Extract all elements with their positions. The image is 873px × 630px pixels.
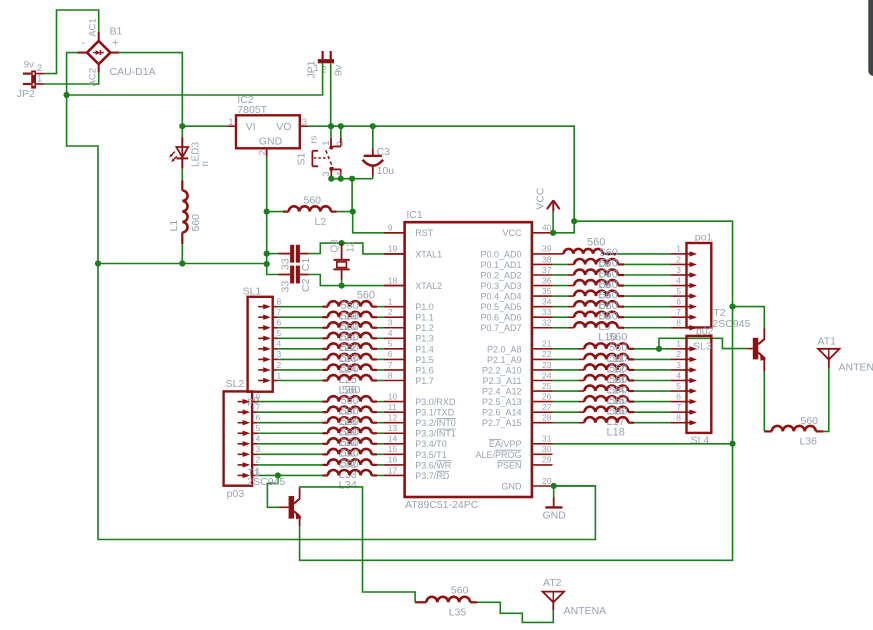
svg-text:ALE/PROG: ALE/PROG — [475, 450, 521, 460]
wire inductor to SL3 pin 3 — [634, 369, 687, 371]
svg-text:1: 1 — [314, 63, 319, 74]
wire ground rail to GND symbol — [98, 264, 595, 540]
svg-text:7: 7 — [676, 402, 681, 412]
SL3 pin 6 — [676, 391, 697, 404]
wire to ground rail row — [266, 254, 268, 264]
svg-text:2: 2 — [256, 455, 261, 465]
svg-text:7: 7 — [388, 360, 393, 370]
inductor L32 560 — [328, 437, 377, 470]
svg-text:p03: p03 — [227, 488, 245, 500]
wire to IC1 — [377, 474, 384, 476]
capacitor C1 33 — [267, 243, 342, 271]
svg-text:GND: GND — [502, 481, 523, 491]
wire to IC1 — [377, 432, 384, 434]
junction IC1 pin40 — [550, 230, 556, 236]
svg-text:33: 33 — [279, 281, 291, 293]
svg-text:24: 24 — [542, 370, 552, 380]
svg-text:33: 33 — [542, 307, 552, 317]
wire SL1.5 to P1.3 — [278, 337, 328, 339]
crystal Q3 — [330, 239, 357, 286]
svg-text:4: 4 — [676, 275, 681, 285]
wire LED3 to L1 — [181, 169, 183, 181]
svg-text:17: 17 — [388, 465, 398, 475]
IC1 pin 27 P2.6_A14 — [482, 402, 553, 418]
inductor L26 560 — [328, 363, 377, 396]
svg-text:P1.1: P1.1 — [415, 313, 434, 323]
wire IC1 P0.7 to inductor — [553, 327, 575, 329]
svg-text:4: 4 — [676, 370, 681, 380]
svg-text:5: 5 — [676, 286, 681, 296]
svg-text:560: 560 — [341, 363, 359, 375]
SL3 pin 5 — [676, 381, 697, 394]
antenna AT2 ANTENA — [543, 577, 607, 617]
svg-text:21: 21 — [542, 339, 552, 349]
svg-text:P0.1_AD1: P0.1_AD1 — [480, 260, 521, 270]
inductor L17 560 — [584, 395, 634, 428]
po1 pin 3 — [676, 265, 697, 278]
junction C1 left — [264, 251, 270, 257]
SL1 pin 4 — [258, 339, 281, 352]
inductor L3 560 — [564, 237, 617, 270]
svg-text:VO: VO — [276, 121, 291, 133]
svg-text:P0.6_AD6: P0.6_AD6 — [480, 313, 521, 323]
inductor L21 560 — [328, 310, 377, 343]
svg-text:5: 5 — [676, 381, 681, 391]
wire L2-left down to C1 row — [266, 212, 268, 254]
junction Q3 top — [339, 240, 345, 246]
wire to IC1 — [377, 443, 384, 445]
junction L1/ground rail — [179, 260, 185, 266]
LED LED3 — [169, 126, 211, 169]
svg-text:P1.4: P1.4 — [415, 344, 434, 354]
IC1 pin 17 P3.7/RD — [384, 465, 450, 481]
svg-text:C1: C1 — [300, 258, 312, 272]
svg-text:L1: L1 — [168, 220, 180, 232]
wire IC1 P2.1 to inductor — [553, 358, 585, 360]
svg-text:1: 1 — [277, 370, 282, 380]
wire VCC rail from IC2 VO — [308, 126, 574, 221]
svg-text:31: 31 — [542, 434, 552, 444]
wire IC1 P0.3 to inductor — [553, 285, 575, 287]
svg-text:1: 1 — [676, 339, 681, 349]
svg-text:L36: L36 — [800, 436, 818, 448]
svg-text:6: 6 — [676, 391, 681, 401]
IC1 pin 9 RST — [384, 223, 434, 239]
connector JP2 — [17, 59, 43, 100]
inductor L27 560 — [328, 384, 377, 417]
wire JP2.2 to B1 AC1 — [36, 10, 99, 74]
inductor L18 560 — [584, 405, 634, 438]
svg-text:rs: rs — [309, 135, 320, 143]
wire EA/VPP pin31 to SL4 net — [553, 443, 733, 445]
svg-text:P3.4/T0: P3.4/T0 — [415, 439, 447, 449]
wire S1 bottom rail — [331, 178, 373, 180]
inductor L34 560 — [328, 458, 377, 491]
IC1 pin 36 P0.3_AD3 — [480, 275, 552, 291]
wire SL2 row 4 to P3.3 — [258, 432, 328, 434]
svg-text:2: 2 — [676, 349, 681, 359]
po1 pin 6 — [676, 296, 697, 309]
inductor L20 560 — [328, 300, 377, 333]
inductor L22 560 — [328, 321, 377, 354]
wire to T1 base — [267, 475, 288, 507]
svg-text:P3.2/INT0: P3.2/INT0 — [415, 418, 456, 428]
svg-text:23: 23 — [542, 360, 552, 370]
wire IC1 P2.7 to inductor — [553, 422, 585, 424]
wire T2 collector to VCC vertical — [733, 307, 765, 329]
svg-text:19: 19 — [388, 244, 398, 254]
SL1 pin 6 — [258, 318, 281, 331]
svg-text:7805T: 7805T — [237, 104, 267, 116]
inductor L15 560 — [584, 374, 634, 407]
svg-text:13: 13 — [388, 423, 398, 433]
svg-text:P0.5_AD5: P0.5_AD5 — [480, 302, 521, 312]
svg-text:XTAL2: XTAL2 — [415, 281, 442, 291]
IC1 pin 1 P1.0 — [384, 296, 434, 312]
svg-text:P1.6: P1.6 — [415, 365, 434, 375]
IC1 pin 10 P3.0/RXD — [384, 391, 456, 407]
po1 pin 5 — [676, 286, 697, 299]
IC1 pin 11 P3.1/TXD — [384, 402, 455, 418]
inductor L36 560 — [764, 415, 823, 448]
IC1 pin 7 P1.6 — [384, 360, 434, 376]
wire to IC1 — [377, 401, 384, 403]
svg-text:P2.0_A8: P2.0_A8 — [487, 344, 522, 354]
wire inductor to po1 pin 3 — [624, 274, 687, 276]
svg-text:SL1: SL1 — [243, 285, 262, 297]
junction VCC rail right — [571, 218, 577, 224]
wire to IC1 — [377, 316, 384, 318]
svg-text:32: 32 — [542, 318, 552, 328]
junction S1.4 — [338, 176, 344, 182]
wire SL1.4 to P1.4 — [278, 348, 328, 350]
svg-text:29: 29 — [542, 455, 552, 465]
svg-text:L35: L35 — [449, 607, 467, 619]
svg-text:560: 560 — [600, 310, 618, 322]
wire SL3.1 to T2 base — [659, 338, 753, 349]
inductor L1 560 — [168, 180, 202, 244]
svg-text:2: 2 — [388, 307, 393, 317]
inductor L33 560 — [328, 448, 377, 481]
wire pin40 to VCC rail — [553, 221, 574, 233]
svg-text:PSEN: PSEN — [497, 460, 522, 470]
SL2 pin 6 — [238, 413, 261, 426]
inductor L29 560 — [328, 405, 377, 438]
wire T2 emitter to L36 — [763, 371, 765, 431]
inductor L12 560 — [584, 342, 634, 375]
wire to IC1 — [377, 380, 384, 382]
IC1 pin 6 P1.5 — [384, 349, 434, 365]
svg-text:36: 36 — [542, 275, 552, 285]
IC1 pin 25 P2.4_A12 — [482, 381, 553, 397]
IC1 pin 39 P0.0_AD0 — [480, 244, 552, 260]
junction VCC rail S1.1 — [328, 123, 334, 129]
svg-text:35: 35 — [542, 286, 552, 296]
wire T1 collector to L35 — [300, 487, 416, 602]
svg-text:AT2: AT2 — [543, 577, 562, 589]
wire SL1.6 to P1.2 — [278, 327, 328, 329]
wire SL2 row 5 to P3.4 — [258, 443, 328, 445]
wire IC1 P0.2 to inductor — [553, 274, 575, 276]
wire IC1 P0.0 to inductor — [553, 253, 564, 255]
wire inductor to po1 pin 8 — [624, 327, 687, 329]
svg-text:Q3: Q3 — [330, 239, 341, 253]
svg-text:+: + — [112, 37, 118, 49]
svg-text:30: 30 — [542, 444, 552, 454]
SL2 pin 1 — [238, 465, 261, 478]
IC1 pin 5 P1.4 — [384, 339, 434, 355]
svg-text:33: 33 — [279, 258, 291, 270]
SL1 pin 3 — [258, 349, 281, 362]
bridge rectifier B1 — [77, 18, 155, 86]
svg-text:40: 40 — [542, 223, 552, 233]
SL1 pin 8 — [258, 296, 281, 309]
svg-text:12: 12 — [346, 241, 357, 253]
junction T2 collector net — [729, 304, 735, 310]
voltage regulator IC2 7805T — [228, 94, 308, 157]
svg-text:6: 6 — [676, 296, 681, 306]
wire inductor to po1 pin 2 — [624, 263, 687, 265]
wire to IC1 — [377, 464, 384, 466]
svg-text:AC2: AC2 — [87, 68, 98, 86]
wire IC2 GND down — [266, 157, 268, 211]
junction VCC rail S1.2 — [338, 123, 344, 129]
svg-text:P0.4_AD4: P0.4_AD4 — [480, 292, 521, 302]
svg-text:560: 560 — [801, 415, 819, 427]
wire SL1.2 to P1.6 — [278, 369, 328, 371]
junction S1/L2 tap — [349, 176, 355, 182]
svg-text:SL4: SL4 — [691, 435, 710, 447]
svg-text:34: 34 — [542, 296, 552, 306]
wire IC1 P2.2 to inductor — [553, 369, 585, 371]
svg-text:18: 18 — [388, 275, 398, 285]
inductor L10 560 — [574, 310, 624, 343]
SL1 pin 2 — [258, 360, 281, 373]
junction B1+/LED3/IC2.VI — [179, 123, 185, 129]
IC1 pin 29 PSEN — [497, 455, 553, 471]
svg-text:5: 5 — [277, 328, 282, 338]
wire to IC1 — [377, 327, 384, 329]
IC1 pin 31 EA/VPP — [489, 434, 553, 450]
inductor L13 560 — [584, 353, 634, 386]
connector SL2 p03 — [224, 378, 260, 500]
svg-text:AC1: AC1 — [87, 18, 98, 36]
SL1 pin 7 — [258, 307, 281, 320]
SL3 pin 4 — [676, 370, 697, 383]
svg-text:6: 6 — [277, 318, 282, 328]
wire B1 minus to ground net — [77, 52, 87, 54]
connector JP1 — [306, 51, 345, 79]
po1 pin 8 — [676, 318, 697, 331]
svg-text:14: 14 — [388, 434, 398, 444]
wire inductor to SL3 pin 4 — [634, 380, 687, 382]
wire VCC rail to SL4 vertical — [574, 221, 732, 306]
SL3 pin 8 — [676, 413, 697, 426]
wire ground net down-left rail — [67, 95, 98, 264]
svg-text:SL2: SL2 — [226, 378, 245, 390]
wire IC1 P0.6 to inductor — [553, 316, 575, 318]
capacitor C2 33 — [278, 266, 341, 293]
junction L2 left — [264, 209, 270, 215]
SL2 pin 3 — [238, 444, 261, 457]
svg-text:2SC945: 2SC945 — [712, 318, 750, 330]
wire SL2 row 7 to P3.6 — [258, 464, 328, 466]
svg-text:XTAL1: XTAL1 — [415, 249, 442, 259]
SL3 pin 1 — [676, 339, 697, 352]
junction ground rail left — [95, 260, 101, 266]
svg-text:9v: 9v — [24, 59, 34, 70]
wire C1/Q3 to XTAL1 — [342, 243, 405, 254]
IC1 pin 8 P1.7 — [384, 370, 434, 386]
svg-text:P1.3: P1.3 — [415, 334, 434, 344]
wire inductor to po1 pin 5 — [624, 295, 687, 297]
svg-text:AT1: AT1 — [818, 335, 837, 347]
inductor L16 560 — [584, 384, 634, 417]
svg-text:1: 1 — [388, 296, 393, 306]
svg-text:C3: C3 — [377, 146, 391, 158]
svg-text:L34: L34 — [339, 479, 357, 491]
wire JP1.1 down-left — [321, 63, 323, 95]
svg-text:4: 4 — [277, 339, 282, 349]
IC1 pin 34 P0.5_AD5 — [480, 296, 552, 312]
wire SL1.7 to P1.1 — [278, 316, 328, 318]
svg-text:7: 7 — [277, 307, 282, 317]
wire S1 to L2 right — [351, 179, 353, 212]
inductor L11 560 — [584, 332, 634, 365]
svg-text:P1.7: P1.7 — [415, 376, 434, 386]
scrollbar thumb — [868, 0, 873, 76]
inductor L8 560 — [574, 289, 624, 322]
IC1 pin 4 P1.3 — [384, 328, 434, 344]
svg-text:ANTENA: ANTENA — [839, 362, 873, 374]
inductor L6 560 — [574, 268, 624, 301]
wire junction to JP1.1 — [67, 94, 321, 96]
svg-text:P0.2_AD2: P0.2_AD2 — [480, 270, 521, 280]
junction EA/VPP net — [729, 441, 735, 447]
wire IC1 P0.5 to inductor — [553, 306, 575, 308]
inductor L7 560 — [574, 279, 624, 312]
wire inductor to SL3 pin 2 — [634, 358, 687, 360]
IC1 pin 28 P2.7_A15 — [482, 413, 553, 429]
svg-text:L2: L2 — [315, 216, 327, 228]
wire inductor to po1 pin 7 — [624, 316, 687, 318]
wire SL2 row 6 to P3.5 — [258, 453, 328, 455]
svg-text:26: 26 — [542, 391, 552, 401]
svg-text:1: 1 — [321, 141, 332, 146]
svg-text:P3.0/RXD: P3.0/RXD — [415, 397, 456, 407]
connector SL1 — [243, 285, 273, 391]
svg-text:2SC945: 2SC945 — [247, 476, 285, 488]
SL2 pin 7 — [238, 402, 261, 415]
svg-text:37: 37 — [542, 265, 552, 275]
wire C2/Q3 to XTAL2 — [342, 285, 405, 287]
svg-text:P2.6_A14: P2.6_A14 — [482, 408, 522, 418]
junction VCC rail C3 — [370, 123, 376, 129]
IC1 pin 16 P3.6/WR — [384, 455, 452, 471]
svg-text:560: 560 — [609, 405, 627, 417]
wire inductor to SL3 pin 1 — [634, 348, 687, 350]
IC1 pin 30 ALE/PROG — [475, 444, 552, 460]
svg-text:5: 5 — [388, 339, 393, 349]
inductor L14 560 — [584, 363, 634, 396]
wire SL2 row 1 to P3.0 — [258, 401, 328, 403]
wire IC1 P0.1 to inductor — [553, 263, 575, 265]
wire IC1 P2.4 to inductor — [553, 390, 585, 392]
inductor L23 560 — [328, 332, 377, 365]
svg-text:po1: po1 — [695, 232, 713, 244]
microcontroller IC1 AT89C51-24PC — [405, 209, 532, 511]
junction IC1 pin20 GND — [551, 483, 557, 489]
svg-text:-: - — [82, 37, 86, 49]
svg-text:P1.0: P1.0 — [415, 302, 434, 312]
svg-text:IC1: IC1 — [406, 209, 423, 221]
wire L35 to AT2 — [477, 602, 553, 622]
inductor L30 560 — [328, 416, 377, 449]
svg-text:20: 20 — [542, 476, 552, 486]
svg-text:6: 6 — [388, 349, 393, 359]
svg-text:EA/VPP: EA/VPP — [489, 439, 522, 449]
inductor L19 560 — [328, 289, 377, 322]
svg-text:VCC: VCC — [502, 228, 522, 238]
junction S1.3 — [328, 176, 334, 182]
svg-text:P1.5: P1.5 — [415, 355, 434, 365]
svg-text:9v: 9v — [333, 64, 345, 76]
svg-text:560: 560 — [304, 194, 322, 206]
inductor L28 560 — [328, 395, 377, 428]
svg-text:CAU-D1A: CAU-D1A — [110, 66, 156, 78]
svg-text:39: 39 — [542, 244, 552, 254]
wire SL2 row 2 to P3.1 — [258, 411, 328, 413]
svg-text:B1: B1 — [110, 26, 123, 38]
wire ground rail left segment — [98, 263, 267, 265]
wire inductor to po1 pin 6 — [624, 306, 687, 308]
po1 pin 4 — [676, 275, 697, 288]
IC1 pin 12 P3.2/INT0 — [384, 413, 456, 429]
connector SL3 SL4 — [687, 336, 712, 447]
svg-text:7: 7 — [676, 307, 681, 317]
IC1 pin 23 P2.2_A10 — [482, 360, 553, 376]
wire SL1.1 to P1.7 — [278, 380, 328, 382]
svg-text:GND: GND — [543, 509, 567, 521]
svg-text:2: 2 — [676, 254, 681, 264]
wire inductor to SL3 pin 8 — [634, 422, 687, 424]
svg-text:1: 1 — [37, 73, 42, 84]
antenna AT1 ANTENA — [818, 335, 873, 373]
switch S1 — [296, 126, 347, 179]
junction SL3 pin1 / T2 base — [656, 346, 662, 352]
inductor L31 560 — [328, 427, 377, 460]
IC1 pin 15 P3.5/T1 — [384, 444, 447, 460]
wire L1 to ground rail — [181, 244, 183, 264]
junction Q3 bottom — [339, 283, 345, 289]
svg-text:P2.7_A15: P2.7_A15 — [482, 418, 522, 428]
wire JP1.2 to VCC rail — [330, 63, 332, 126]
IC1 pin 21 P2.0_A8 — [487, 339, 553, 355]
svg-text:P2.1_A9: P2.1_A9 — [487, 355, 522, 365]
svg-text:8: 8 — [676, 318, 681, 328]
wire pin20 to rail — [554, 485, 596, 487]
svg-text:3: 3 — [388, 318, 393, 328]
wire junction to IC2 VI pin 1 — [182, 125, 236, 127]
wire to IC1 — [377, 348, 384, 350]
wire IC1 P2.5 to inductor — [553, 401, 585, 403]
power symbol VCC — [535, 187, 560, 233]
wire to IC1 — [377, 369, 384, 371]
IC1 pin 38 P0.1_AD1 — [480, 254, 552, 270]
svg-text:6: 6 — [256, 413, 261, 423]
svg-text:560: 560 — [190, 214, 202, 232]
svg-text:11: 11 — [388, 402, 397, 412]
